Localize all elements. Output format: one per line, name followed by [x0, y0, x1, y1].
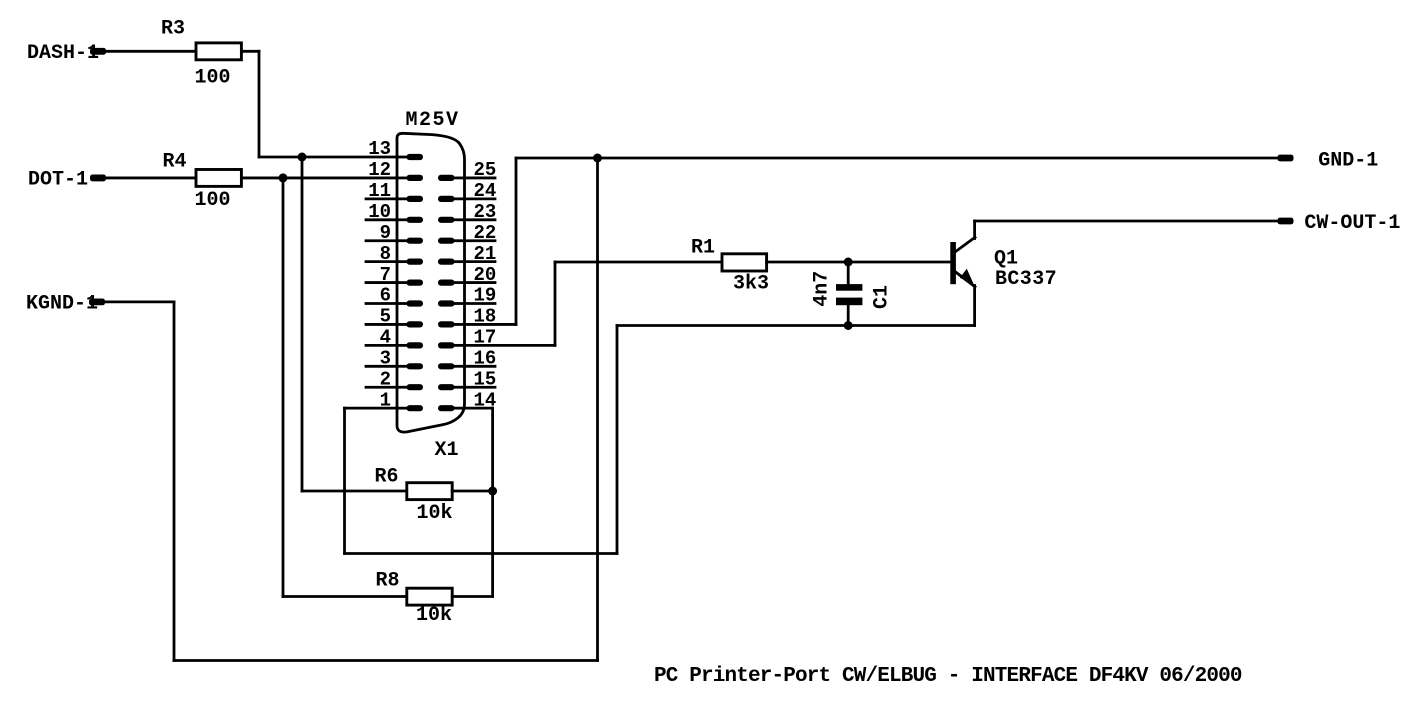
svg-text:3k3: 3k3 [733, 273, 769, 296]
svg-text:DASH-1: DASH-1 [27, 42, 99, 65]
svg-text:10k: 10k [416, 604, 452, 627]
svg-text:Q1: Q1 [994, 247, 1018, 270]
svg-text:KGND-1: KGND-1 [26, 293, 98, 316]
svg-text:R6: R6 [375, 466, 399, 489]
svg-text:M25V: M25V [406, 109, 460, 132]
svg-text:100: 100 [195, 66, 231, 89]
svg-text:GND-1: GND-1 [1318, 150, 1378, 173]
svg-text:CW-OUT-1: CW-OUT-1 [1304, 212, 1400, 235]
svg-text:DOT-1: DOT-1 [28, 169, 88, 192]
svg-text:BC337: BC337 [995, 268, 1057, 291]
svg-text:R1: R1 [691, 237, 715, 260]
svg-text:C1: C1 [870, 285, 893, 309]
svg-text:10k: 10k [417, 502, 453, 525]
svg-text:R4: R4 [163, 150, 187, 173]
svg-text:R3: R3 [161, 18, 185, 41]
svg-text:X1: X1 [435, 439, 459, 462]
svg-text:100: 100 [195, 189, 231, 212]
svg-text:R8: R8 [376, 570, 400, 593]
svg-text:4n7: 4n7 [811, 271, 834, 307]
svg-text:PC Printer-Port CW/ELBUG - INT: PC Printer-Port CW/ELBUG - INTERFACE DF4… [654, 665, 1242, 688]
